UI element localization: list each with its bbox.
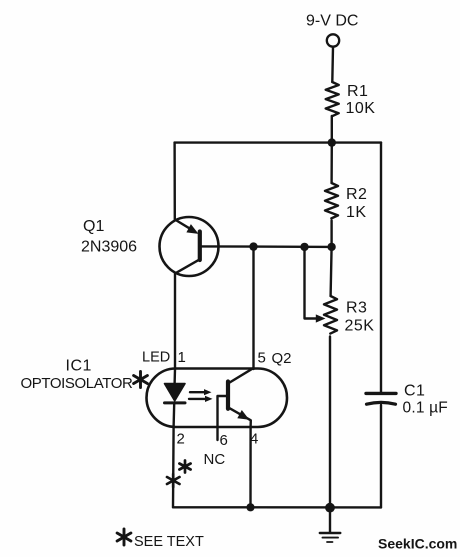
svg-text:Q1: Q1	[83, 218, 104, 235]
wire top bus to Q1 emitter	[173, 143, 176, 220]
wire bottom bus	[173, 506, 381, 509]
svg-text:SeekIC.com: SeekIC.com	[378, 536, 457, 552]
svg-text:2N3906: 2N3906	[81, 239, 137, 256]
terminal 9-V DC	[327, 34, 339, 46]
svg-text:1: 1	[178, 349, 186, 366]
wire right rail to C1	[380, 143, 382, 392]
phototransistor Q2	[218, 368, 254, 440]
light arrow lower	[189, 398, 208, 400]
asterisk break mark on pin 2 wire	[167, 474, 180, 487]
transistor Q1	[160, 217, 219, 276]
wire pin 5	[252, 247, 254, 369]
wire rail to R2	[330, 143, 333, 183]
svg-text:R3: R3	[346, 300, 367, 317]
wire C1 to bottom bus	[380, 405, 382, 507]
wire R3 to bottom bus	[329, 337, 331, 508]
svg-text:0.1 µF: 0.1 µF	[403, 400, 448, 417]
svg-text:6: 6	[220, 432, 228, 449]
resistor R1	[326, 82, 339, 116]
node top bus junction	[328, 138, 336, 146]
node base-pin5 junction	[249, 242, 257, 250]
svg-text:9-V DC: 9-V DC	[306, 13, 358, 30]
potentiometer R3	[324, 296, 337, 334]
wire pin 2 to bottom bus	[172, 427, 175, 507]
svg-text:OPTOISOLATOR: OPTOISOLATOR	[21, 375, 133, 392]
wire R2 to junction	[330, 221, 332, 247]
node pin4-bottom junction	[246, 503, 254, 511]
node base-wiper junction	[300, 243, 308, 251]
wire R3 wiper	[305, 247, 318, 319]
light arrow upper	[190, 391, 207, 393]
svg-text:2: 2	[177, 431, 185, 448]
optoisolator IC1 body	[147, 369, 288, 428]
svg-text:IC1: IC1	[66, 358, 92, 375]
wire Q1 collector to pin 1	[174, 273, 176, 369]
ground	[320, 508, 341, 542]
asterisk free near pin 2	[179, 461, 190, 473]
svg-text:10K: 10K	[346, 100, 376, 117]
svg-text:1K: 1K	[346, 204, 367, 221]
node ground junction	[325, 503, 335, 513]
svg-text:C1: C1	[404, 383, 425, 400]
svg-text:R1: R1	[347, 83, 368, 100]
svg-text:5: 5	[258, 350, 266, 367]
wire pin 4 to bottom bus	[249, 427, 252, 507]
svg-text:25K: 25K	[345, 318, 375, 335]
svg-text:SEE TEXT: SEE TEXT	[134, 534, 204, 550]
svg-text:NC: NC	[204, 451, 226, 468]
wire top bus left	[175, 141, 332, 143]
node base-rail junction	[327, 243, 335, 251]
wire junction to R3	[331, 247, 332, 296]
wiper arrowhead	[316, 314, 326, 322]
asterisk after OPTOISOLATOR	[134, 372, 148, 388]
svg-text:Q2: Q2	[272, 350, 292, 367]
wire top bus right	[332, 141, 381, 143]
asterisk before SEE TEXT	[117, 529, 131, 545]
wire Q1 base lead	[200, 245, 332, 248]
wire terminal to R1	[331, 47, 334, 82]
LED D1	[165, 369, 186, 427]
wire R1 to top bus	[331, 116, 333, 143]
capacitor C1	[366, 393, 396, 404]
resistor R2	[325, 183, 338, 218]
svg-text:R2: R2	[346, 186, 367, 203]
svg-text:LED: LED	[142, 350, 170, 366]
